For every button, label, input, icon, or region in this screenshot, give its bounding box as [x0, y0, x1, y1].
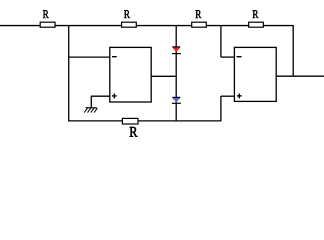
- wire: U2 non-inverting input branch: [221, 95, 235, 97]
- op-amp U1: [110, 47, 151, 102]
- op-amp U2 non-inverting input marker +: [237, 95, 242, 97]
- resistor R1: [40, 22, 55, 27]
- wire: bottom rail through bottom resistor: [68, 120, 221, 122]
- op-amp U2: [234, 47, 276, 101]
- op-amp U2 inverting input marker -: [237, 56, 242, 58]
- resistor R3 value label R: [196, 10, 202, 18]
- resistor R1 value label R: [43, 10, 49, 18]
- resistor R4: [249, 22, 264, 27]
- ground: [84, 108, 97, 113]
- diode D1 (red): [172, 47, 181, 54]
- resistor R2 value label R: [124, 10, 130, 18]
- diode D2 (blue): [172, 97, 181, 103]
- op-amp U1 inverting input marker -: [112, 56, 117, 58]
- wire: top signal rail from input through R1,R2,R3,R4 to feedback corner: [0, 25, 293, 27]
- wire: vertical from U2 non-inverting input down to bottom rail: [220, 96, 222, 121]
- resistor R4 value label R: [253, 10, 259, 18]
- wire: U1 non-inverting input to ground: [91, 95, 110, 97]
- wire: diode branch vertical (top rail to bottom rail): [175, 25, 177, 121]
- wire: ground stem: [90, 96, 92, 108]
- resistor R3: [192, 22, 207, 27]
- wire: into U2 inverting input: [221, 56, 235, 58]
- wire: U1 output to diode node: [151, 75, 176, 77]
- resistor R5 (bottom feedback resistor): [122, 118, 138, 124]
- wire: vertical from top rail down to U2 inverting input: [220, 25, 222, 57]
- wire: U2 output line to right edge: [276, 75, 324, 77]
- op-amp U1 non-inverting input marker +: [112, 95, 117, 97]
- wire: branch to U1 inverting input: [68, 56, 110, 58]
- wire: vertical from node after R1 down to bottom rail: [68, 25, 70, 121]
- resistor R2: [122, 22, 137, 27]
- wire: feedback vertical from top rail down to output line: [292, 25, 294, 76]
- resistor R5 value label R: [130, 127, 138, 137]
